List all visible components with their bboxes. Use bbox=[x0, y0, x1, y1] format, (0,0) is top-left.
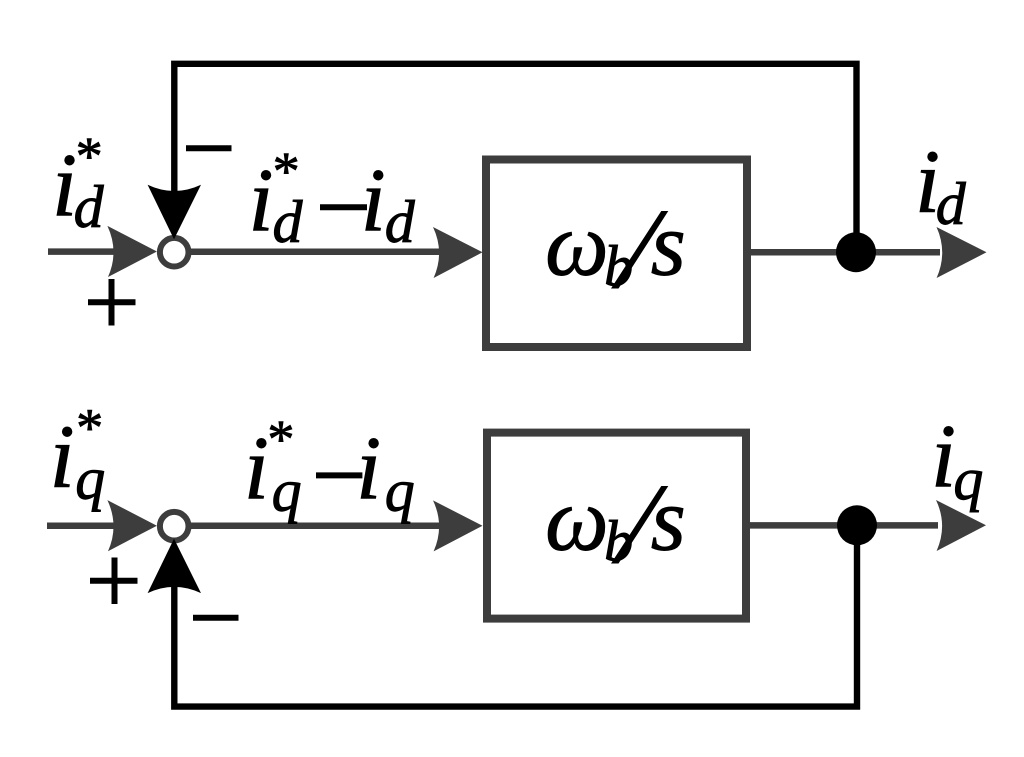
minus sign at summing junction S1 bbox=[186, 145, 232, 151]
svg-text:i: i bbox=[356, 419, 381, 518]
svg-text:d: d bbox=[74, 174, 105, 240]
label i*d (d-axis reference input) bbox=[52, 126, 105, 240]
node N1 (d-axis output tap) bbox=[836, 232, 876, 272]
plus sign at summing junction S1 bbox=[88, 279, 136, 326]
minus sign at summing junction S2 bbox=[193, 615, 239, 621]
svg-text:s: s bbox=[651, 471, 686, 570]
svg-text:q: q bbox=[385, 458, 415, 524]
svg-text:ω: ω bbox=[545, 196, 609, 295]
svg-text:d: d bbox=[936, 171, 967, 237]
feedback arrowhead into summing junction S2 bbox=[148, 539, 201, 593]
arrowhead into block G1 bbox=[433, 227, 483, 278]
svg-text:d: d bbox=[385, 189, 416, 255]
summing junction S1 (circle) bbox=[160, 238, 189, 267]
label i*q (q-axis reference input) bbox=[50, 397, 106, 511]
output arrowhead (id) bbox=[937, 227, 987, 278]
svg-text:i: i bbox=[50, 407, 75, 506]
wire: q-axis feedback path from node N2 bbox=[174, 527, 857, 707]
feedback arrowhead into summing junction S1 bbox=[148, 185, 201, 240]
wire: d-axis feedback path from node N1 bbox=[174, 64, 856, 250]
label i*d - id (error signal) bbox=[249, 141, 416, 255]
summing junction S2 (circle) bbox=[160, 512, 189, 541]
wire: G1 output line bbox=[747, 249, 940, 256]
output arrowhead (iq) bbox=[936, 500, 986, 551]
svg-text:i: i bbox=[931, 407, 956, 506]
wire: error signal line (i*q - iq) bbox=[190, 523, 445, 530]
label wb/s inside block G1 bbox=[545, 196, 686, 299]
node N2 (q-axis output tap) bbox=[837, 505, 877, 545]
arrowhead into summing junction S1 (d-axis) bbox=[107, 226, 156, 277]
svg-text:s: s bbox=[651, 196, 686, 295]
svg-text:ω: ω bbox=[545, 471, 609, 570]
block G2 (wb/s integrator, q-axis) bbox=[487, 433, 746, 619]
wire: q-axis input line bbox=[47, 523, 120, 530]
label i*q - iq (error signal) bbox=[244, 409, 415, 523]
svg-text:q: q bbox=[953, 446, 983, 512]
arrowhead into summing junction S2 (q-axis) bbox=[107, 500, 156, 551]
svg-text:i: i bbox=[361, 151, 386, 250]
label id (d-axis output) bbox=[915, 133, 967, 238]
plus sign at summing junction S2 bbox=[90, 558, 138, 605]
arrowhead into block G2 bbox=[433, 500, 483, 551]
svg-text:d: d bbox=[273, 189, 304, 255]
block G1 (wb/s integrator, d-axis) bbox=[486, 160, 747, 348]
label iq (q-axis output) bbox=[931, 407, 983, 512]
wire: G2 output line bbox=[746, 522, 938, 529]
svg-text:q: q bbox=[272, 458, 302, 524]
label wb/s inside block G2 bbox=[545, 471, 686, 574]
wire: d-axis input line bbox=[48, 248, 120, 255]
svg-text:q: q bbox=[75, 446, 105, 512]
wire: error signal line (i*d - id) bbox=[190, 249, 445, 256]
